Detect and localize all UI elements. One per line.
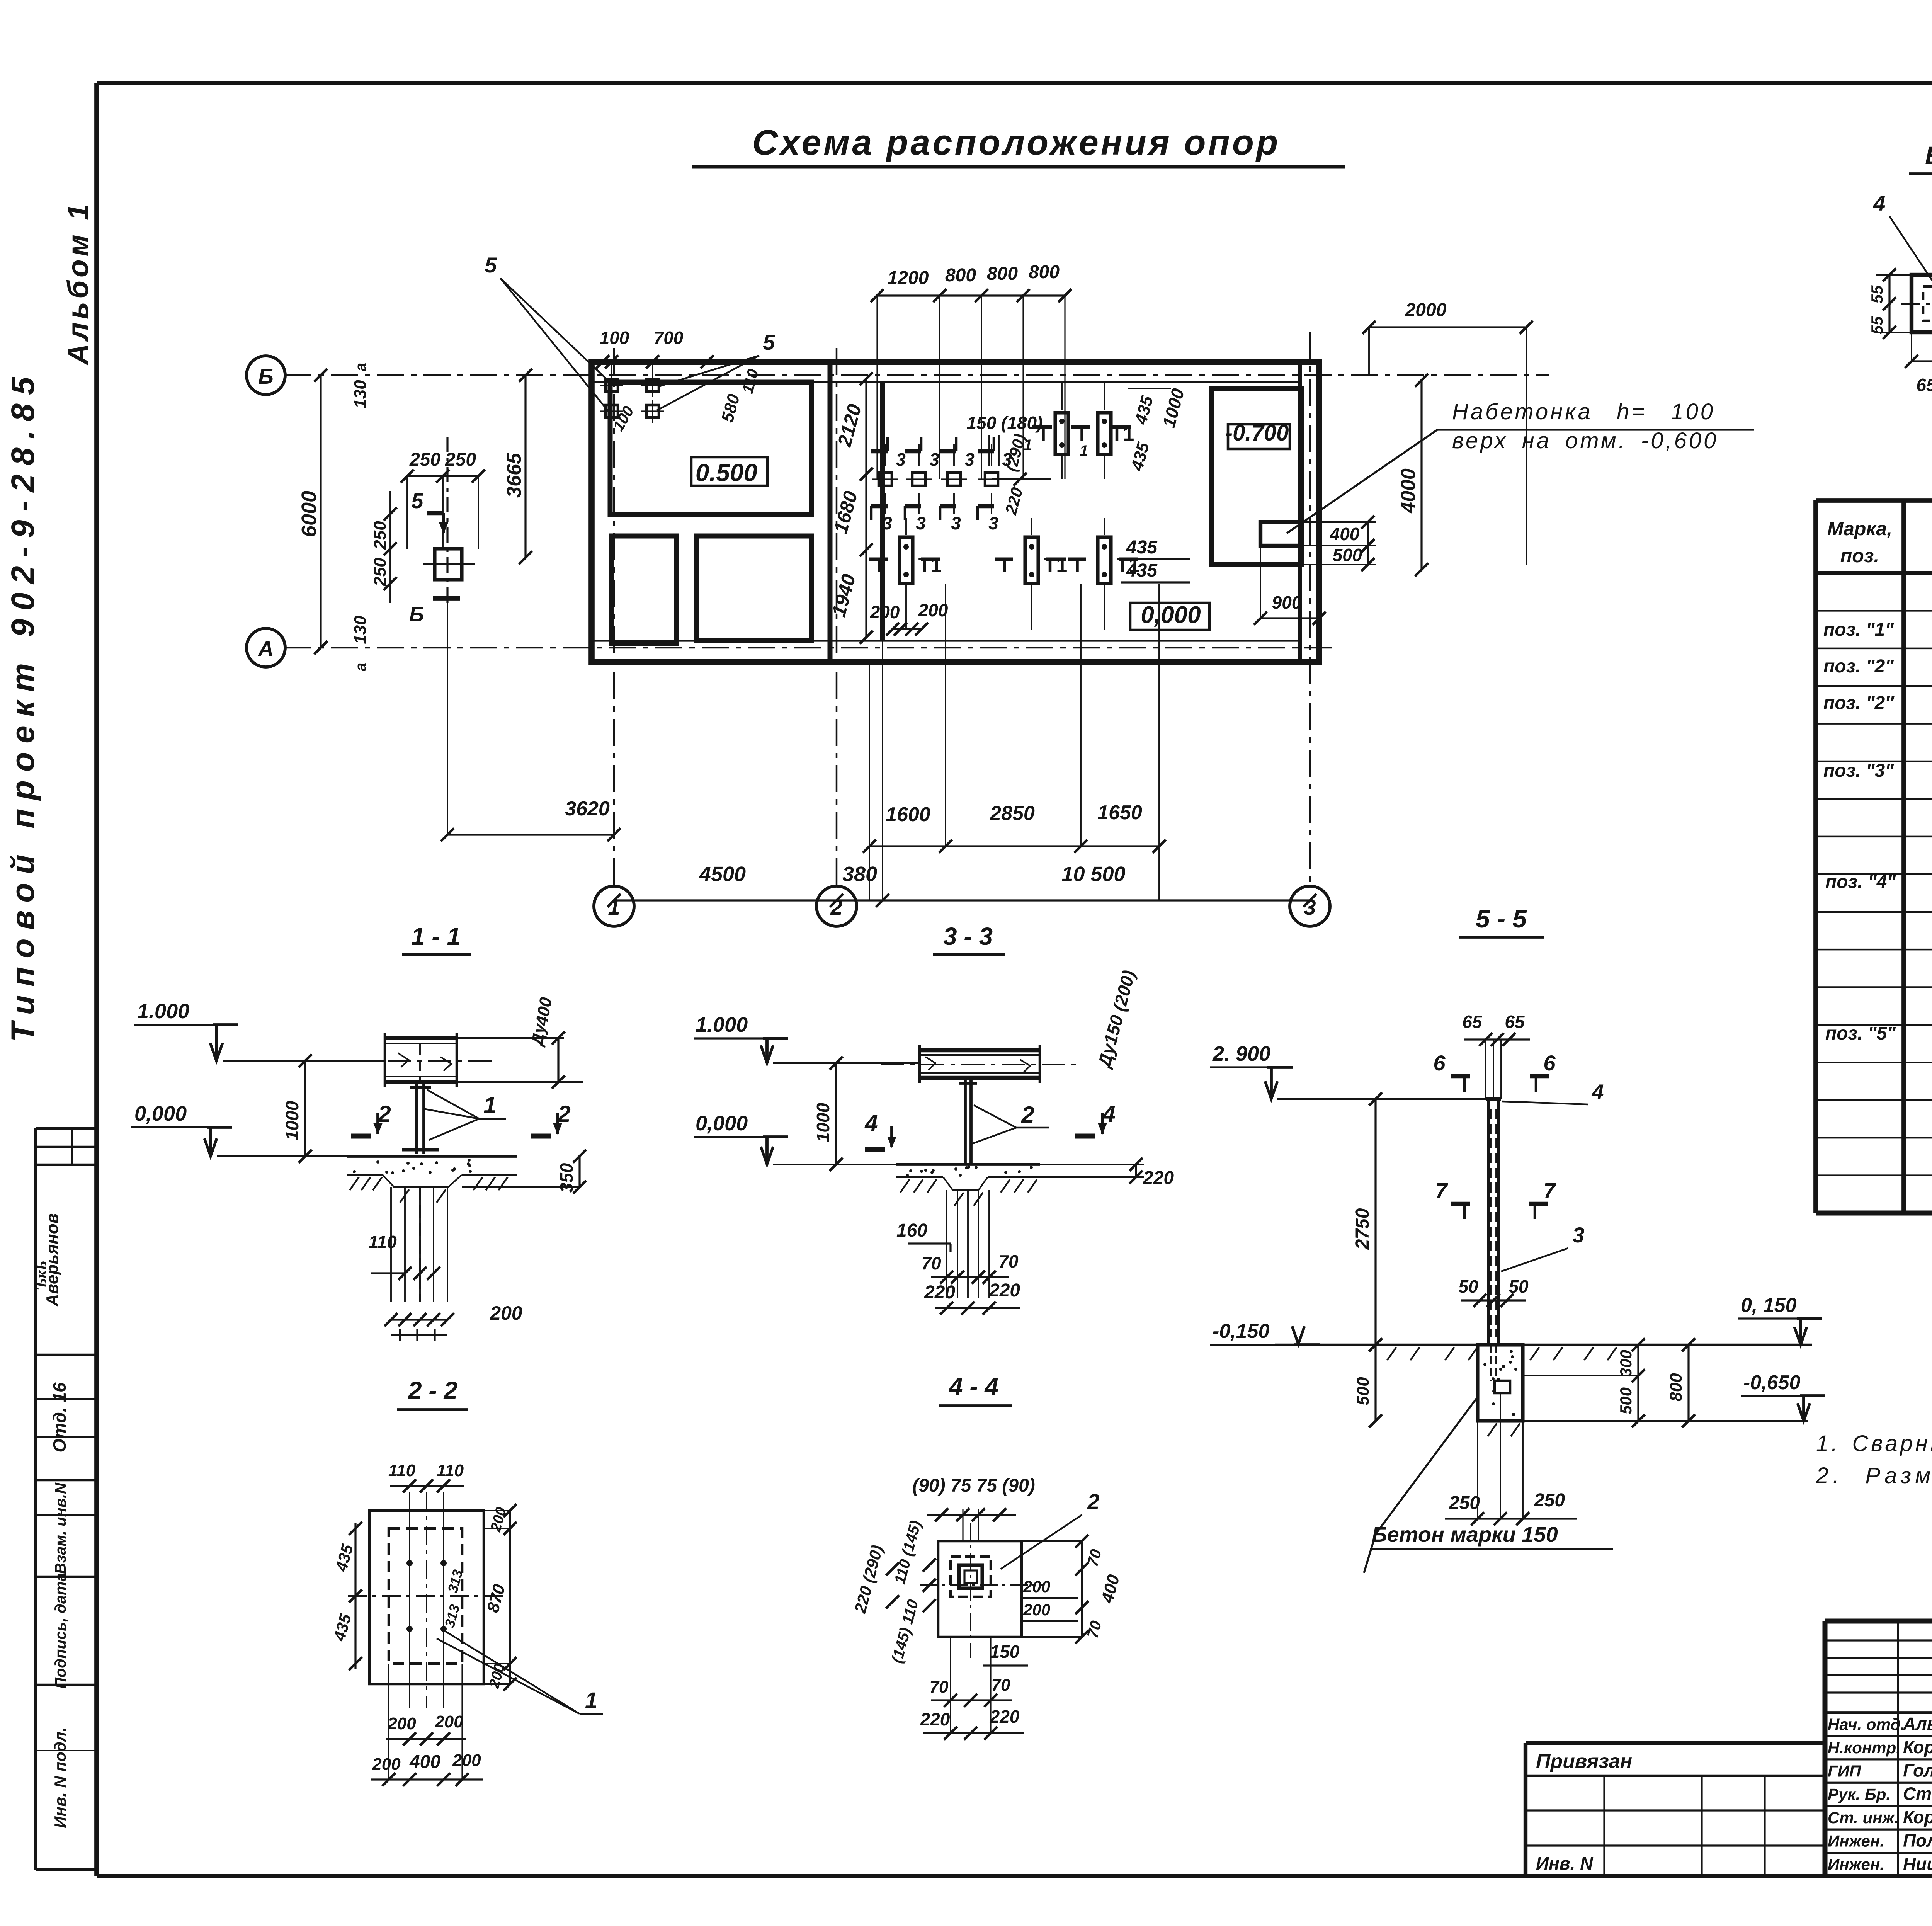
svg-text:3: 3	[882, 513, 892, 533]
svg-text:65: 65	[1462, 1012, 1483, 1032]
svg-text:1: 1	[1080, 442, 1088, 459]
svg-text:Альтшумлер: Альтшумлер	[1903, 1713, 1932, 1734]
svg-text:а: а	[352, 663, 369, 671]
svg-text:Набетонка h= 100: Набетонка h= 100	[1452, 399, 1715, 424]
svg-text:3: 3	[896, 449, 906, 470]
svg-text:55: 55	[1868, 285, 1886, 303]
svg-text:Станина: Станина	[1903, 1784, 1932, 1804]
svg-text:1200: 1200	[888, 268, 929, 288]
svg-text:3: 3	[1572, 1223, 1584, 1247]
svg-text:200: 200	[387, 1714, 416, 1733]
svg-text:4000: 4000	[1397, 468, 1420, 514]
svg-text:Полякова: Полякова	[1903, 1831, 1932, 1851]
svg-text:Ст. инж.: Ст. инж.	[1828, 1809, 1899, 1827]
svg-text:1: 1	[483, 1092, 496, 1118]
svg-text:65: 65	[1916, 375, 1932, 395]
svg-text:1600: 1600	[886, 803, 930, 826]
svg-text:Схема расположения опор: Схема расположения опор	[752, 123, 1280, 162]
svg-text:110: 110	[437, 1461, 464, 1480]
svg-text:50: 50	[1458, 1276, 1478, 1296]
svg-text:поз. "3": поз. "3"	[1823, 761, 1894, 781]
svg-text:55: 55	[1868, 316, 1886, 334]
svg-text:Альбом 1: Альбом 1	[62, 201, 95, 366]
svg-text:5: 5	[763, 330, 775, 354]
svg-text:0,000: 0,000	[696, 1112, 748, 1135]
svg-text:1.000: 1.000	[696, 1013, 748, 1036]
svg-text:1 - 1: 1 - 1	[411, 922, 461, 950]
svg-text:70: 70	[998, 1251, 1019, 1271]
svg-text:-0,650: -0,650	[1743, 1371, 1801, 1394]
svg-text:50: 50	[1509, 1276, 1529, 1296]
svg-text:2: 2	[1087, 1489, 1099, 1514]
svg-text:200: 200	[490, 1302, 522, 1324]
svg-text:поз. "4": поз. "4"	[1825, 872, 1896, 892]
svg-text:2. Размеры в скобках даны для: 2. Размеры в скобках даны для типа	[1816, 1463, 1932, 1488]
svg-text:130: 130	[351, 616, 370, 644]
svg-text:Инв. N подл.: Инв. N подл.	[51, 1727, 69, 1828]
svg-text:800: 800	[987, 264, 1018, 284]
svg-text:435: 435	[1126, 537, 1158, 558]
svg-text:4: 4	[1102, 1101, 1115, 1127]
svg-text:2850: 2850	[990, 802, 1035, 825]
svg-text:4: 4	[1873, 191, 1885, 215]
svg-text:Бетон марки 150: Бетон марки 150	[1372, 1522, 1558, 1547]
svg-text:Нач. отд.: Нач. отд.	[1828, 1715, 1905, 1733]
svg-text:4 - 4: 4 - 4	[948, 1373, 998, 1400]
svg-text:100: 100	[600, 328, 629, 348]
svg-text:4: 4	[1591, 1080, 1604, 1104]
svg-text:2: 2	[378, 1101, 391, 1127]
svg-text:0.500: 0.500	[696, 459, 757, 487]
svg-text:65: 65	[1505, 1012, 1525, 1032]
svg-text:70: 70	[921, 1253, 941, 1273]
svg-text:поз. "2″: поз. "2″	[1823, 693, 1895, 713]
svg-text:110: 110	[388, 1461, 416, 1480]
svg-text:1000: 1000	[282, 1101, 302, 1140]
svg-text:1650: 1650	[1097, 801, 1142, 824]
svg-text:10 500: 10 500	[1061, 863, 1125, 886]
svg-text:900: 900	[1272, 592, 1302, 613]
svg-text:2: 2	[830, 895, 842, 919]
svg-text:Ницкевич: Ницкевич	[1903, 1854, 1932, 1874]
svg-text:220: 220	[1143, 1168, 1174, 1188]
svg-text:Типовой проект 902-9-28.85: Типовой проект 902-9-28.85	[5, 369, 41, 1042]
svg-text:2 - 2: 2 - 2	[408, 1376, 457, 1404]
svg-text:6000: 6000	[298, 491, 321, 537]
svg-text:200: 200	[434, 1712, 463, 1731]
svg-text:1: 1	[1024, 437, 1032, 454]
svg-text:800: 800	[1029, 262, 1060, 282]
svg-text:3: 3	[988, 513, 998, 533]
svg-text:70: 70	[930, 1678, 949, 1696]
svg-text:поз. "5": поз. "5"	[1825, 1023, 1896, 1044]
svg-text:Инжен.: Инжен.	[1828, 1855, 1884, 1873]
svg-text:А: А	[257, 636, 274, 661]
svg-text:400: 400	[1330, 524, 1360, 544]
svg-text:150: 150	[990, 1642, 1020, 1662]
svg-text:Аверьянов: Аверьянов	[43, 1213, 62, 1307]
svg-text:поз.: поз.	[1840, 545, 1879, 567]
svg-text:Взам. инв.N: Взам. инв.N	[52, 1482, 69, 1574]
svg-text:верх на отм. -0,600: верх на отм. -0,600	[1452, 428, 1718, 453]
svg-text:200: 200	[918, 600, 948, 620]
svg-text:Марка,: Марка,	[1827, 518, 1892, 539]
svg-text:200: 200	[372, 1755, 401, 1774]
svg-text:Инжен.: Инжен.	[1828, 1832, 1884, 1850]
svg-text:220: 220	[990, 1707, 1020, 1727]
svg-text:435: 435	[1126, 560, 1158, 581]
svg-text:Б: Б	[409, 603, 424, 626]
svg-text:200: 200	[870, 602, 900, 622]
svg-text:поз. "1": поз. "1"	[1823, 619, 1894, 640]
svg-text:250: 250	[409, 449, 440, 470]
svg-text:110: 110	[368, 1232, 397, 1252]
svg-text:0,000: 0,000	[1141, 602, 1201, 628]
svg-text:4500: 4500	[699, 863, 746, 886]
svg-text:1. Сварные швы h= 6мм. электр: 1. Сварные швы h= 6мм. электроды Э42 по …	[1816, 1431, 1932, 1456]
svg-text:500: 500	[1617, 1387, 1635, 1414]
svg-text:250: 250	[371, 521, 389, 550]
svg-text:700: 700	[654, 328, 684, 348]
svg-text:2750: 2750	[1352, 1208, 1373, 1250]
svg-text:6: 6	[1433, 1051, 1446, 1075]
svg-text:500: 500	[1354, 1377, 1372, 1405]
svg-text:Отд. 16: Отд. 16	[49, 1382, 70, 1453]
svg-text:Инв. N: Инв. N	[1536, 1853, 1593, 1873]
svg-text:Привязан: Привязан	[1536, 1750, 1632, 1773]
svg-text:6: 6	[1543, 1051, 1556, 1075]
svg-text:2. 900: 2. 900	[1212, 1042, 1270, 1065]
svg-text:2: 2	[557, 1101, 570, 1127]
svg-text:200: 200	[1023, 1577, 1050, 1596]
svg-text:300: 300	[1617, 1350, 1635, 1377]
svg-text:1000: 1000	[813, 1103, 833, 1142]
svg-text:250: 250	[445, 449, 476, 470]
svg-text:800: 800	[1667, 1373, 1685, 1402]
svg-text:3 - 3: 3 - 3	[943, 922, 993, 950]
svg-text:7: 7	[1543, 1178, 1556, 1203]
svg-text:500: 500	[1333, 545, 1362, 565]
svg-text:а: а	[352, 363, 369, 371]
svg-text:150 (180): 150 (180)	[967, 413, 1043, 433]
svg-text:250: 250	[371, 558, 389, 587]
svg-text:0,000: 0,000	[134, 1102, 187, 1125]
svg-text:5: 5	[485, 253, 497, 277]
svg-text:250: 250	[1449, 1493, 1480, 1513]
svg-text:130: 130	[351, 380, 370, 408]
svg-text:Корнилова: Корнилова	[1903, 1807, 1932, 1827]
svg-text:Подпись, дата: Подпись, дата	[52, 1573, 69, 1689]
svg-text:Гольдина: Гольдина	[1903, 1760, 1932, 1780]
svg-text:4: 4	[864, 1110, 878, 1136]
svg-text:70: 70	[992, 1676, 1010, 1695]
svg-text:400: 400	[409, 1752, 440, 1772]
svg-text:5 - 5: 5 - 5	[1476, 904, 1527, 933]
svg-text:1.000: 1.000	[137, 1000, 189, 1023]
svg-text:220: 220	[924, 1282, 955, 1303]
svg-text:3665: 3665	[503, 453, 526, 498]
svg-text:Н.контр.: Н.контр.	[1828, 1739, 1901, 1757]
svg-text:Корнилова: Корнилова	[1903, 1737, 1932, 1757]
svg-text:200: 200	[1023, 1601, 1050, 1619]
svg-text:3: 3	[929, 449, 939, 470]
svg-text:1: 1	[585, 1688, 597, 1713]
svg-text:-0,150: -0,150	[1213, 1320, 1270, 1342]
svg-text:2000: 2000	[1405, 300, 1447, 320]
svg-text:Б - Б: Б - Б	[1925, 141, 1932, 170]
svg-text:3620: 3620	[565, 798, 610, 820]
svg-text:поз. "2": поз. "2"	[1823, 656, 1894, 677]
svg-text:250: 250	[1534, 1490, 1565, 1511]
svg-text:(90) 75 75 (90): (90) 75 75 (90)	[912, 1475, 1035, 1496]
svg-text:800: 800	[945, 265, 976, 286]
svg-text:5: 5	[411, 488, 423, 513]
svg-text:3: 3	[916, 513, 926, 533]
svg-text:7: 7	[1435, 1178, 1448, 1203]
svg-text:Рук. Бр.: Рук. Бр.	[1828, 1785, 1891, 1803]
svg-text:0, 150: 0, 150	[1741, 1294, 1797, 1317]
svg-text:350: 350	[556, 1163, 577, 1193]
svg-text:200: 200	[452, 1751, 481, 1770]
svg-text:ГИП: ГИП	[1828, 1762, 1861, 1780]
svg-text:380: 380	[842, 863, 877, 886]
svg-text:3: 3	[964, 449, 975, 470]
svg-text:Б: Б	[258, 364, 274, 388]
svg-text:2: 2	[1021, 1102, 1034, 1128]
svg-text:220: 220	[989, 1280, 1020, 1301]
svg-text:160: 160	[896, 1220, 927, 1241]
svg-text:3: 3	[951, 513, 961, 533]
svg-text:ЪкЬ: ЪкЬ	[32, 1261, 50, 1290]
svg-text:220: 220	[920, 1709, 950, 1729]
